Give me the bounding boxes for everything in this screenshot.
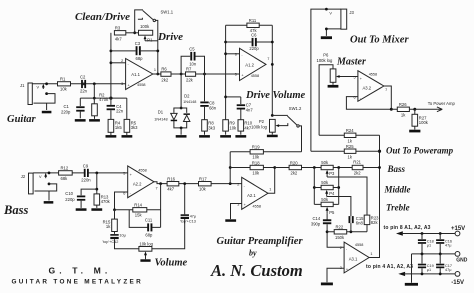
svg-text:R25: R25: [346, 144, 354, 149]
resistor R21: [352, 165, 363, 169]
svg-text:5: 5: [123, 172, 125, 176]
node P4 right: [337, 186, 340, 189]
node diode top: [180, 107, 183, 110]
op-amp A3.2: [358, 71, 384, 102]
ground under diodes: [176, 135, 187, 138]
capacitor C14: [326, 214, 328, 220]
svg-text:C1: C1: [64, 104, 70, 109]
svg-text:10k: 10k: [229, 126, 237, 131]
capacitor C16: [439, 234, 441, 240]
node P2 top: [271, 114, 274, 117]
node bus P4: [313, 186, 316, 189]
node output A1.1: [156, 73, 159, 76]
capacitor C15: [349, 216, 351, 223]
svg-text:3: 3: [121, 82, 123, 86]
svg-text:10n: 10n: [189, 61, 197, 66]
wire C3 row: [111, 50, 158, 52]
svg-text:P5: P5: [329, 210, 335, 215]
wiper of P2: [278, 123, 288, 126]
wire J3 sleeve: [326, 29, 341, 36]
wiper P4: [326, 192, 328, 196]
svg-text:2k2: 2k2: [291, 170, 298, 175]
resistor R14: [115, 209, 161, 211]
svg-text:50k: 50k: [321, 180, 329, 185]
svg-text:6n8: 6n8: [356, 221, 364, 226]
capacitor C3: [136, 46, 138, 55]
wire output rail down: [160, 184, 162, 228]
svg-text:Guitar: Guitar: [7, 114, 37, 125]
svg-text:68p: 68p: [136, 56, 144, 61]
svg-text:220n: 220n: [81, 178, 91, 183]
svg-text:220p: 220p: [249, 46, 259, 51]
wire A2.1 output up: [268, 168, 275, 194]
resistor R16: [167, 182, 179, 186]
wire mixer rail x310.4: [311, 9, 341, 151]
svg-text:4k7: 4k7: [167, 186, 174, 191]
node pin2 junction: [110, 61, 113, 64]
svg-text:J2: J2: [21, 174, 26, 179]
diode D1: [174, 108, 181, 128]
wire tone left bus: [313, 168, 315, 205]
svg-text:1k5: 1k5: [115, 125, 122, 130]
svg-text:7: 7: [385, 88, 387, 92]
wire C9 node down: [96, 173, 98, 194]
svg-text:5: 5: [354, 75, 356, 79]
svg-text:R14: R14: [134, 203, 142, 208]
resistor R18: [230, 167, 289, 169]
resistor R1: [58, 82, 71, 86]
wire jack shunt loop: [34, 94, 56, 104]
node R7 right: [203, 73, 206, 76]
svg-text:Drive: Drive: [157, 31, 183, 43]
node after C9: [95, 172, 98, 175]
ground under volume wiper: [140, 259, 150, 262]
svg-text:4558: 4558: [251, 74, 259, 78]
svg-text:4558: 4558: [253, 205, 261, 209]
resistor R25: [311, 150, 380, 152]
node C17 bottom: [439, 273, 442, 276]
svg-text:2k2: 2k2: [354, 170, 361, 175]
svg-text:470k: 470k: [101, 199, 111, 204]
svg-text:by: by: [249, 249, 257, 258]
node jack tip: [45, 82, 48, 85]
node R13 top: [95, 188, 98, 191]
svg-text:4558: 4558: [355, 243, 363, 247]
ground power rail: [405, 283, 418, 286]
wiper P3: [326, 172, 328, 177]
svg-text:1: 1: [154, 68, 156, 72]
node C6 left: [224, 41, 227, 44]
wire pin6: [226, 53, 240, 55]
node after C2: [93, 82, 96, 85]
svg-text:3k3: 3k3: [208, 126, 215, 131]
svg-text:150k: 150k: [335, 235, 345, 240]
arrow to power amp: [415, 108, 438, 110]
wire output row: [153, 73, 240, 75]
node A1.2 output: [271, 63, 274, 66]
node A3.1 output row R21: [378, 166, 381, 169]
svg-text:7: 7: [267, 57, 269, 61]
node R2 top: [93, 97, 96, 100]
node jack switch contact: [45, 92, 48, 95]
resistor R5: [124, 119, 130, 132]
node R9 branch: [224, 96, 227, 99]
diode D2: [181, 108, 187, 128]
wire pin3 to ground: [327, 268, 344, 282]
ground under C1: [75, 119, 86, 122]
ground under R8: [199, 135, 210, 138]
svg-text:P3: P3: [329, 171, 335, 176]
wire GND drop: [411, 254, 413, 283]
ground under R27: [409, 130, 420, 133]
svg-text:J1: J1: [20, 83, 25, 88]
svg-text:1N4148: 1N4148: [154, 117, 167, 121]
wire C2 node down: [93, 84, 95, 98]
svg-text:μ1: μ1: [427, 268, 431, 272]
svg-text:220p: 220p: [61, 110, 71, 115]
svg-text:7: 7: [156, 186, 158, 190]
capacitor C1: [79, 98, 81, 106]
svg-text:R16: R16: [167, 177, 175, 182]
svg-text:10μ: 10μ: [119, 234, 125, 238]
svg-text:P6: P6: [323, 52, 329, 57]
svg-text:15k: 15k: [135, 212, 143, 217]
resistor R20: [275, 167, 321, 169]
svg-text:G. T. M.: G. T. M.: [49, 266, 112, 276]
svg-text:3k3: 3k3: [131, 125, 138, 130]
wire A1.2 feedback left rail: [225, 25, 227, 119]
svg-text:1N4148: 1N4148: [183, 100, 196, 104]
svg-text:R11: R11: [249, 18, 257, 23]
resistor R23: [364, 215, 370, 225]
svg-text:47μ: 47μ: [445, 244, 451, 248]
svg-text:100k log: 100k log: [317, 58, 334, 63]
svg-text:GND: GND: [456, 257, 468, 263]
ground under R5: [122, 135, 133, 138]
svg-text:A1.1: A1.1: [131, 72, 140, 77]
node R14 left: [113, 208, 116, 211]
ground under R10: [235, 135, 246, 138]
svg-text:Drive Volume: Drive Volume: [245, 90, 306, 101]
svg-text:C2: C2: [80, 74, 86, 79]
svg-text:Guitar Preamplifier: Guitar Preamplifier: [217, 236, 304, 247]
svg-text:SW1.2: SW1.2: [289, 106, 302, 111]
jack J2: [29, 173, 34, 194]
wire to R5: [126, 98, 128, 119]
svg-text:A3.2: A3.2: [363, 85, 372, 90]
wire J2 shunt loop: [35, 184, 57, 191]
node crossing at x110.4: [109, 97, 112, 100]
svg-text:470k: 470k: [99, 97, 109, 102]
node pin6: [224, 52, 227, 55]
svg-text:C10: C10: [65, 191, 73, 196]
ground under J1: [42, 111, 52, 114]
svg-text:R1: R1: [60, 77, 66, 82]
svg-text:2: 2: [121, 59, 123, 63]
svg-text:5: 5: [235, 72, 237, 76]
node C18 bottom: [421, 253, 424, 256]
resistor R8: [202, 120, 208, 131]
resistor R6: [161, 72, 171, 76]
terminal +15V: [455, 231, 460, 236]
svg-text:to pin 4 A1, A2, A3: to pin 4 A1, A2, A3: [366, 264, 413, 270]
svg-text:R18: R18: [252, 160, 260, 165]
wire P4 wiper to C15: [327, 197, 351, 217]
svg-text:Out To Mixer: Out To Mixer: [350, 34, 409, 45]
svg-text:68p: 68p: [145, 233, 153, 238]
wire +15V row: [402, 233, 456, 235]
wire input J1 to A1.1 pin3: [32, 83, 125, 85]
switch SW1.2: [272, 114, 288, 116]
node A3.2 feedback: [390, 108, 393, 111]
svg-text:V: V: [329, 12, 332, 16]
resistor R19: [230, 151, 301, 153]
resistor R2: [93, 98, 95, 104]
svg-text:220p: 220p: [65, 197, 75, 202]
svg-text:68n: 68n: [209, 105, 217, 110]
node R3-P1 junction: [133, 31, 136, 34]
wire C12 to volume pot: [115, 239, 139, 249]
potentiometer volume 10k log: [139, 247, 152, 252]
node P3 right: [337, 166, 340, 169]
svg-text:C9: C9: [83, 163, 89, 168]
node C16 bottom: [439, 253, 442, 256]
wire P3 wiper to R23: [327, 177, 367, 215]
svg-text:2k2: 2k2: [161, 78, 168, 83]
potentiometer P5 50k: [314, 203, 338, 205]
terminal GND: [455, 252, 460, 257]
ground under J3: [321, 36, 332, 39]
svg-text:R20: R20: [290, 160, 298, 165]
wire A3.2 feedback: [346, 86, 391, 109]
svg-text:Treble: Treble: [386, 203, 410, 213]
node J2 switch contact: [48, 183, 51, 186]
wire J2 sleeve to ground: [48, 191, 50, 201]
resistor R7: [186, 72, 196, 76]
svg-text:22k: 22k: [186, 78, 194, 83]
node tone bus top: [313, 166, 316, 169]
svg-text:47μ: 47μ: [190, 215, 196, 219]
wire -15V row: [404, 273, 455, 275]
svg-text:4k7: 4k7: [115, 36, 122, 41]
jack J3: [341, 9, 347, 29]
svg-text:22n: 22n: [116, 108, 124, 113]
svg-text:4558: 4558: [369, 73, 377, 77]
wire pin3 to ground: [231, 204, 242, 220]
node C13 top: [183, 182, 186, 185]
svg-text:R3: R3: [115, 26, 121, 31]
capacitor C4: [107, 105, 115, 107]
svg-text:390p: 390p: [311, 221, 321, 226]
node A2.2 output: [159, 182, 162, 185]
svg-text:6: 6: [235, 52, 237, 56]
svg-text:+15V: +15V: [451, 226, 465, 232]
node R6-R7: [180, 73, 183, 76]
node pin2 A2.1: [229, 182, 232, 185]
svg-text:P4: P4: [329, 191, 335, 196]
arrow pin8 supply: [396, 231, 403, 235]
wire pin2: [111, 62, 126, 64]
svg-text:10k: 10k: [252, 155, 260, 160]
svg-text:Volume: Volume: [155, 257, 188, 268]
wire input J2 to A2.2 pin5: [33, 172, 128, 174]
resistor R26: [391, 108, 415, 110]
capacitor C5 bypass loop: [181, 56, 204, 74]
op-amp A2.2: [128, 166, 154, 198]
node C3 row left: [110, 50, 113, 53]
svg-text:C6: C6: [251, 33, 257, 38]
svg-text:Out To Poweramp: Out To Poweramp: [386, 146, 454, 156]
svg-text:A2.2: A2.2: [133, 181, 142, 186]
svg-text:to pin 8 A1, A2, A3: to pin 8 A1, A2, A3: [384, 225, 431, 231]
svg-text:J3: J3: [349, 10, 354, 15]
ground under J2: [44, 201, 54, 204]
svg-text:10k: 10k: [60, 87, 68, 92]
svg-text:'top'+C12: 'top'+C12: [102, 240, 118, 244]
wire right link P3-P4: [338, 168, 340, 205]
op-amp A1.1: [126, 59, 153, 90]
svg-text:Master: Master: [336, 57, 366, 68]
resistor R4: [108, 119, 114, 132]
ground under R4: [106, 135, 117, 138]
node C6 right: [271, 41, 274, 44]
svg-text:82k: 82k: [371, 220, 379, 225]
wire left rail A2.1: [229, 152, 231, 184]
svg-text:μ1: μ1: [427, 244, 431, 248]
potentiometer P1 100k: [139, 30, 153, 35]
svg-text:R12: R12: [61, 166, 69, 171]
capacitor C7: [240, 97, 242, 104]
potentiometer P6: [330, 69, 336, 82]
svg-text:C3: C3: [135, 41, 141, 46]
wire pin6: [115, 192, 128, 210]
svg-text:Middle: Middle: [384, 185, 411, 195]
node R26 right: [413, 108, 416, 111]
node J3 tip: [325, 8, 328, 11]
resistor R3: [114, 31, 125, 35]
svg-text:1: 1: [269, 188, 271, 192]
svg-text:R19: R19: [252, 145, 260, 150]
svg-text:Bass: Bass: [3, 203, 28, 217]
resistor R11: [226, 24, 273, 26]
wire GND row: [412, 253, 456, 255]
capacitor C19: [421, 254, 423, 264]
svg-text:47μ: 47μ: [445, 268, 451, 272]
svg-text:P2: P2: [259, 119, 265, 124]
node R9 top / C7 branch: [226, 96, 241, 98]
svg-text:A3.1: A3.1: [349, 257, 358, 262]
node C3 row right: [156, 50, 159, 53]
wire feedback rail x110.4: [110, 33, 112, 105]
svg-text:R6: R6: [161, 67, 167, 72]
svg-text:10k: 10k: [252, 170, 260, 175]
capacitor C8: [204, 74, 206, 101]
wire A1.2 right rail to P2: [271, 25, 273, 115]
potentiometer P2: [270, 119, 276, 132]
wire R24 to P6 top: [319, 65, 333, 136]
node J2 tip: [48, 172, 51, 175]
svg-text:-15V: -15V: [451, 280, 464, 286]
svg-text:100k log: 100k log: [251, 125, 268, 130]
svg-text:C5: C5: [189, 47, 195, 52]
wire bias row y97.6: [80, 97, 127, 99]
resistor R17: [199, 182, 212, 186]
capacitor C17: [439, 254, 441, 264]
op-amp A3.1: [344, 242, 369, 273]
ground under C10: [76, 208, 87, 211]
wire diode branch drop: [180, 74, 182, 108]
svg-text:R22: R22: [336, 225, 344, 230]
node A2.1 output: [273, 166, 276, 169]
terminal -15V: [455, 272, 460, 277]
svg-text:1: 1: [370, 252, 372, 256]
svg-text:100k: 100k: [419, 120, 429, 125]
svg-text:10k log: 10k log: [139, 242, 153, 247]
capacitor C9: [84, 169, 86, 177]
wire pot to C13: [152, 218, 185, 248]
ground under A2.1: [225, 219, 236, 222]
svg-text:2: 2: [340, 246, 342, 250]
resistor R24: [319, 134, 379, 136]
wire jack sleeve to ground: [46, 103, 48, 110]
resistor R13: [94, 194, 100, 205]
svg-text:4n7: 4n7: [246, 107, 254, 112]
resistor R27: [414, 109, 416, 114]
svg-text:50k: 50k: [321, 197, 329, 202]
ground under P2: [267, 135, 278, 138]
svg-text:22n: 22n: [80, 89, 88, 94]
svg-text:4558: 4558: [138, 169, 146, 173]
svg-text:Bass: Bass: [387, 164, 406, 174]
node C18 top: [421, 232, 424, 235]
svg-text:SW1.1: SW1.1: [161, 10, 174, 15]
resistor R10: [238, 120, 244, 131]
svg-text:68k: 68k: [61, 176, 69, 181]
svg-text:100k: 100k: [140, 24, 150, 29]
svg-text:50k: 50k: [321, 160, 329, 165]
capacitor C10: [77, 196, 85, 198]
svg-text:10k: 10k: [199, 186, 207, 191]
svg-text:R21: R21: [353, 159, 361, 164]
svg-text:'top'+C13: 'top'+C13: [180, 220, 196, 224]
node C16 top: [439, 232, 442, 235]
svg-text:R24: R24: [346, 128, 354, 133]
svg-text:D2: D2: [184, 94, 190, 99]
node diode bottom: [180, 127, 183, 130]
node R18 left: [229, 166, 232, 169]
wiper of P6 to A3.2 pin5: [339, 76, 358, 78]
svg-text:C11: C11: [145, 217, 153, 222]
wire A2.2 output: [154, 182, 242, 184]
resistor R15: [114, 210, 116, 219]
switch SW1.1: [135, 10, 143, 33]
svg-text:R7: R7: [186, 67, 192, 72]
ground under R13: [91, 208, 102, 211]
node R22 left: [326, 230, 329, 233]
wire P3 to R21: [333, 167, 352, 169]
svg-text:GUITAR TONE METALYZER: GUITAR TONE METALYZER: [12, 278, 144, 285]
node R22 right: [350, 230, 353, 233]
svg-text:2: 2: [237, 182, 239, 186]
node C19 bottom: [421, 273, 424, 276]
wire diode to ground: [180, 128, 182, 135]
wire to C10: [81, 189, 97, 195]
wire A3.1 output rail up: [369, 135, 379, 257]
capacitor C12 electrolytic: [114, 232, 116, 234]
resistor R9: [223, 120, 229, 131]
svg-text:R17: R17: [199, 177, 207, 182]
capacitor C6: [226, 41, 273, 43]
